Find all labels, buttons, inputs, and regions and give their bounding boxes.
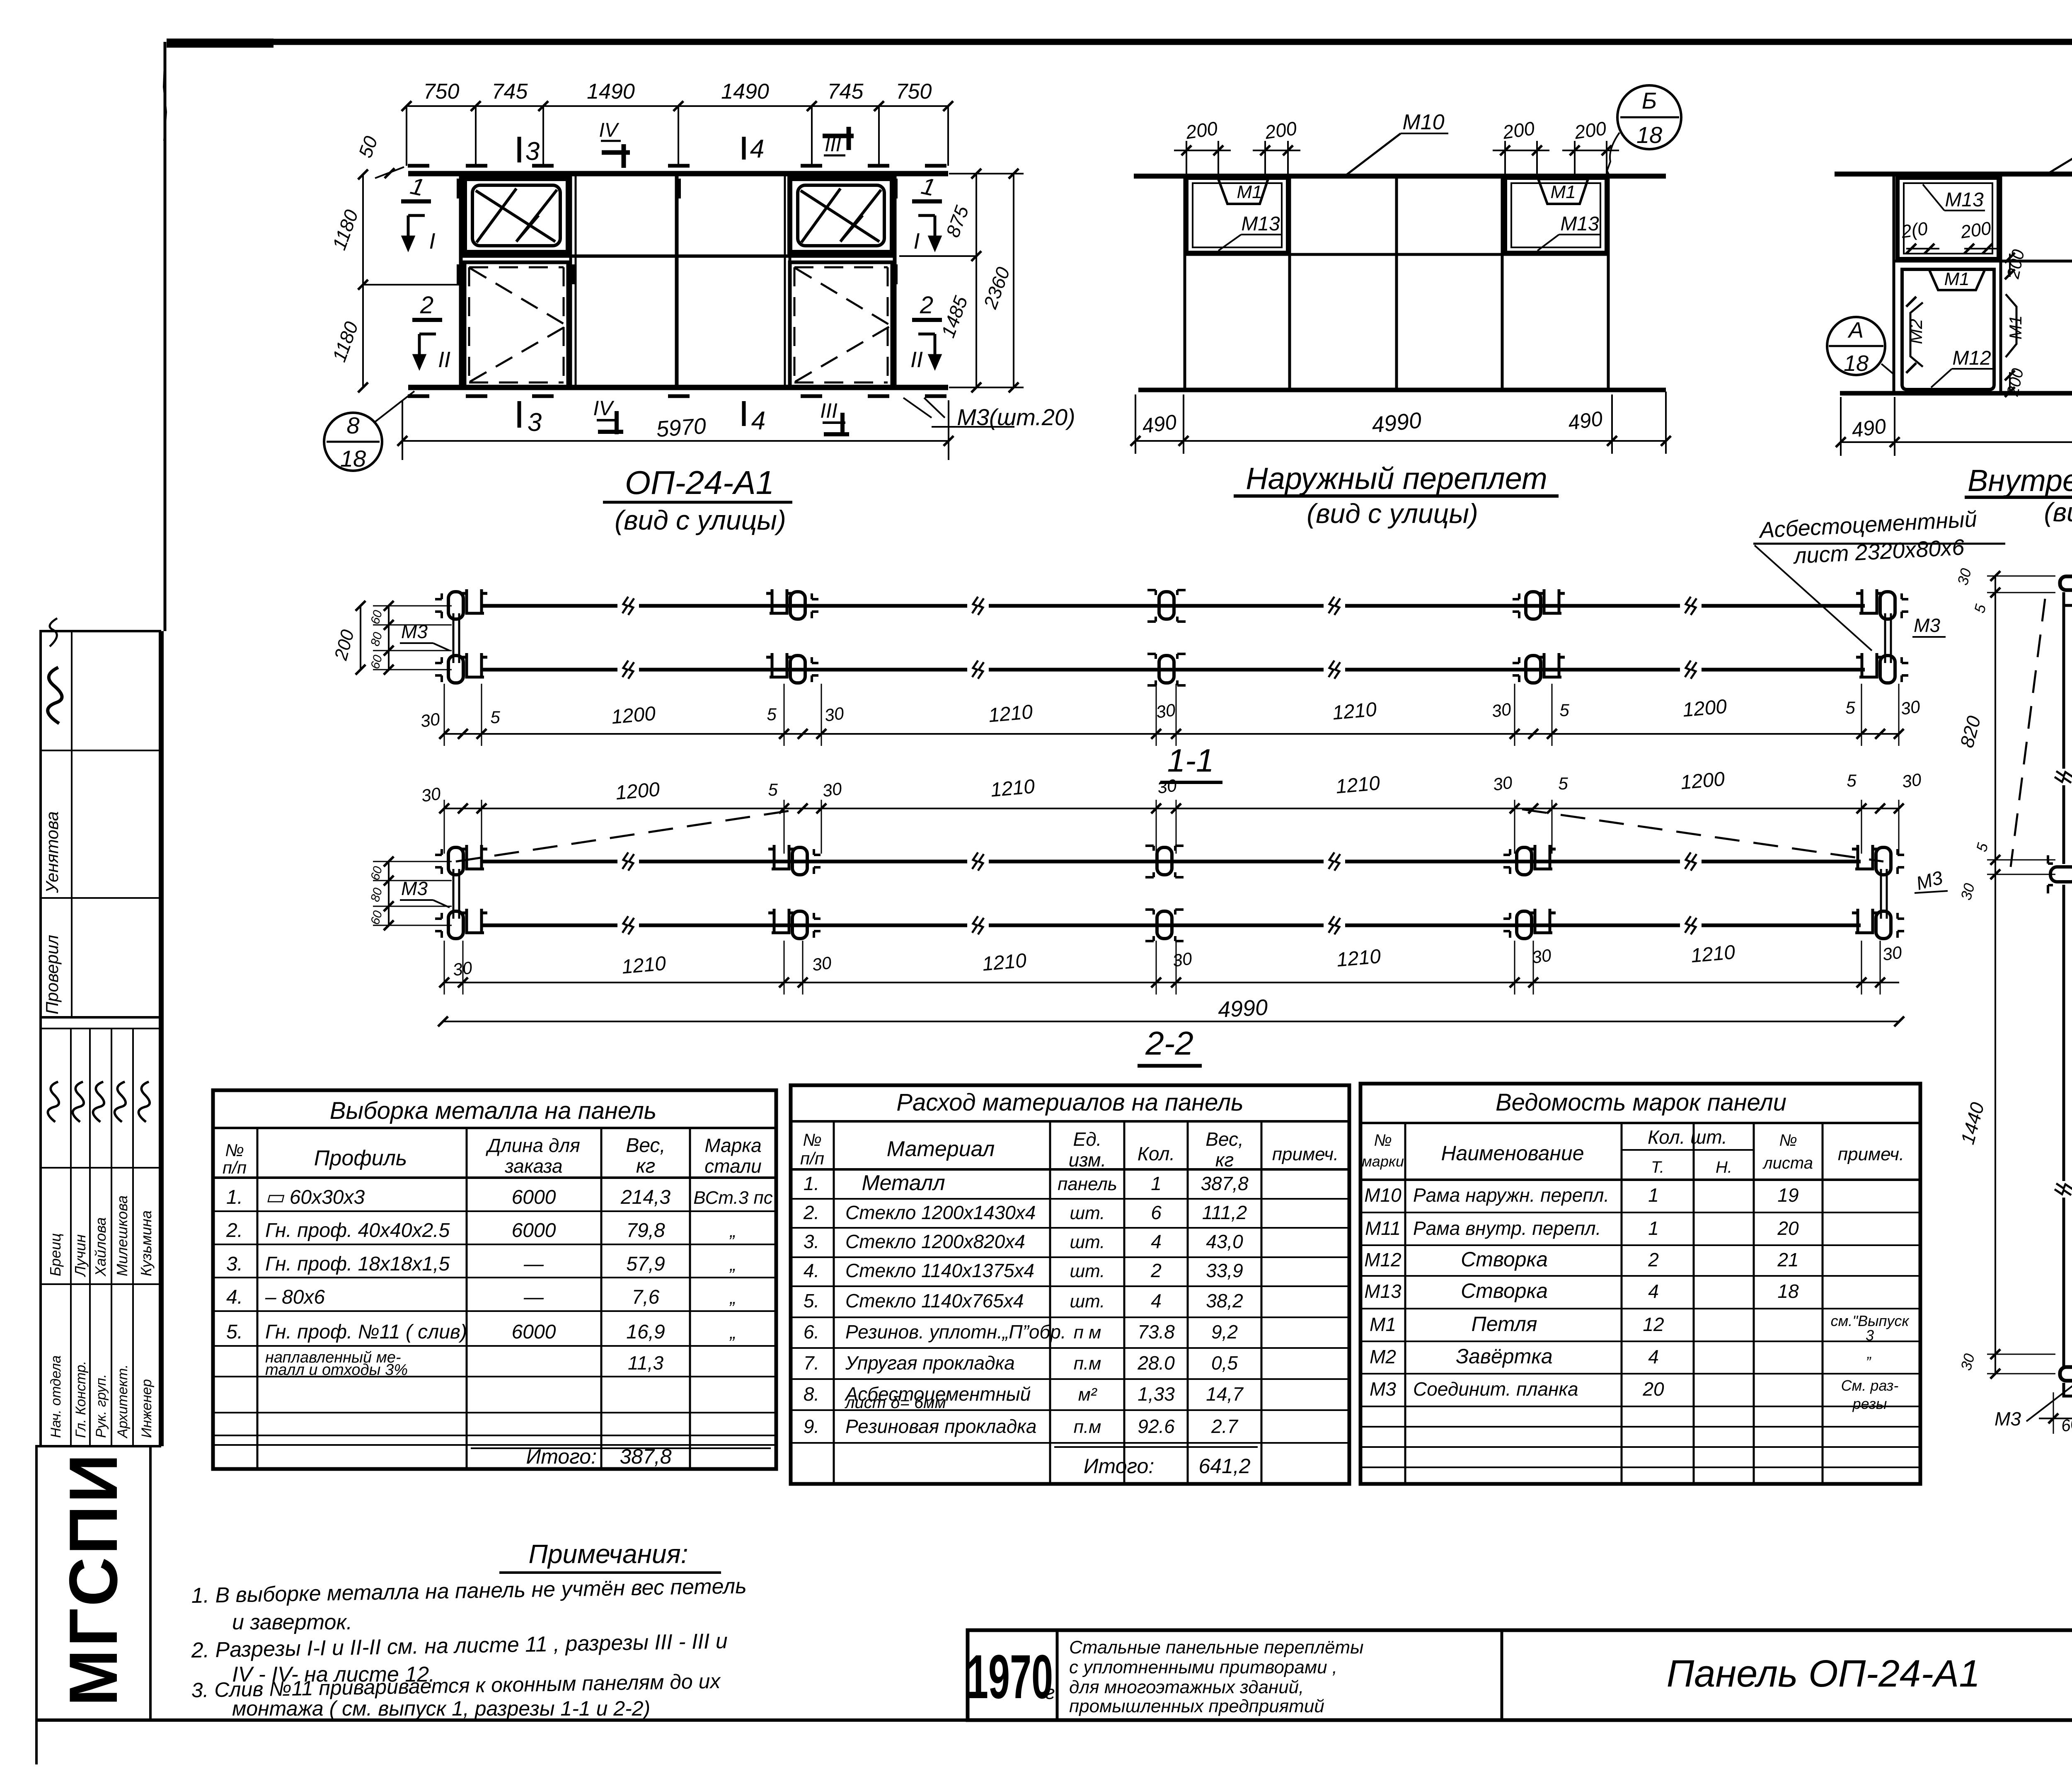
M1 hat left lower [1929, 269, 1985, 290]
svg-text:1-1: 1-1 [1167, 742, 1214, 779]
svg-text:—: — [523, 1286, 544, 1308]
svg-text:14,7: 14,7 [1206, 1383, 1244, 1405]
svg-text:Б: Б [1642, 87, 1657, 114]
vertical member left [2062, 593, 2065, 769]
paper edge artifact top-left [164, 54, 166, 141]
svg-text:Вес,: Вес, [1205, 1128, 1244, 1150]
inner sash left edge [1893, 174, 1895, 393]
svg-text:490: 490 [1140, 410, 1178, 438]
svg-text:30: 30 [1156, 775, 1178, 797]
svg-text:№: № [803, 1130, 822, 1149]
svg-text:М13: М13 [1560, 213, 1599, 235]
svg-text:30: 30 [1531, 945, 1553, 967]
inner sash bottom rail [1840, 391, 2072, 396]
svg-text:примеч.: примеч. [1272, 1144, 1339, 1164]
panel left edge [459, 174, 463, 387]
svg-text:Рук. груп.: Рук. груп. [93, 1374, 109, 1438]
svg-text:шт.: шт. [1070, 1203, 1105, 1223]
svg-text:30: 30 [1155, 700, 1177, 722]
svg-text:30: 30 [811, 953, 833, 975]
svg-text:490: 490 [1850, 414, 1888, 442]
section mark 2-II right [912, 318, 942, 322]
svg-text:п/п: п/п [223, 1158, 247, 1177]
svg-text:7,6: 7,6 [632, 1286, 660, 1308]
svg-text:М11: М11 [1365, 1217, 1401, 1239]
sheet frame border top [167, 39, 2072, 45]
svg-text:Марка: Марка [704, 1135, 761, 1156]
svg-text:1210: 1210 [1336, 945, 1382, 971]
svg-text:промышленных предприятий: промышленных предприятий [1069, 1696, 1324, 1716]
node mark 3 bottom [518, 401, 521, 428]
svg-text:Бреиц: Бреиц [47, 1233, 64, 1276]
svg-text:Уенятова: Уенятова [42, 811, 62, 893]
svg-text:Упругая прокладка: Упругая прокладка [845, 1352, 1015, 1374]
node mark 4 top [742, 137, 746, 160]
window left (M13) [1186, 178, 1288, 253]
M3 connector dashes along rails [408, 164, 429, 168]
section 1-1 left dims 200 60 80 60 [360, 606, 361, 670]
panel mullion center [675, 174, 679, 387]
svg-text:1210: 1210 [981, 949, 1027, 975]
svg-text:5: 5 [1845, 698, 1855, 717]
svg-text:2-2: 2-2 [1145, 1025, 1193, 1062]
panel bottom rail [408, 385, 948, 390]
svg-text:Кол.: Кол. [1138, 1143, 1175, 1164]
panel mullion 1 [569, 174, 572, 387]
svg-text:2(0: 2(0 [1900, 218, 1929, 242]
svg-text:5: 5 [767, 704, 777, 724]
right dim 875/1485 [975, 174, 977, 387]
section 2-2 bottom rail [481, 924, 617, 927]
svg-text:п м: п м [1074, 1322, 1101, 1343]
svg-text:„: „ [1866, 1345, 1872, 1362]
svg-text:2.: 2. [226, 1220, 243, 1241]
svg-text:изм.: изм. [1069, 1149, 1106, 1171]
svg-text:200: 200 [1501, 117, 1536, 143]
svg-text:1210: 1210 [1690, 941, 1736, 967]
panel top rail [408, 171, 948, 177]
svg-text:1210: 1210 [988, 701, 1034, 726]
svg-text:Створка: Створка [1461, 1279, 1548, 1302]
svg-text:30: 30 [1492, 772, 1514, 794]
svg-text:Проверил: Проверил [42, 935, 62, 1014]
svg-text:214,3: 214,3 [620, 1186, 670, 1208]
svg-text:3: 3 [525, 137, 540, 166]
svg-text:4: 4 [750, 135, 764, 163]
section 1-1 right M3 [1884, 613, 1886, 663]
svg-text:М1: М1 [1550, 182, 1576, 202]
svg-text:ВСт.3 пс: ВСт.3 пс [693, 1188, 772, 1208]
svg-text:Рама внутр. перепл.: Рама внутр. перепл. [1413, 1217, 1601, 1239]
svg-text:6.: 6. [804, 1321, 819, 1343]
section 2-2 left dims 60 80 60 [388, 862, 390, 925]
section 1-1 dim line bottom [443, 733, 1899, 735]
svg-text:марки: марки [1362, 1153, 1404, 1170]
svg-text:—: — [523, 1253, 544, 1275]
svg-text:Створка: Створка [1461, 1248, 1548, 1271]
node circle A/18 [1827, 317, 1885, 375]
svg-text:30: 30 [1901, 770, 1923, 791]
svg-text:1: 1 [1648, 1217, 1659, 1239]
svg-text:„: „ [729, 1254, 736, 1275]
svg-text:4.: 4. [804, 1260, 819, 1281]
svg-text:Петля: Петля [1472, 1312, 1537, 1336]
panel right edge [893, 174, 897, 387]
svg-text:п/п: п/п [800, 1149, 824, 1168]
svg-text:Кузьмина: Кузьмина [138, 1210, 155, 1276]
right dim 2360 [1013, 174, 1014, 387]
section 1-1 left connector plate M3 [453, 613, 455, 663]
paper edge artifact bottom-left [35, 1720, 38, 1764]
window top-right with X glazing [790, 179, 892, 252]
svg-text:– 80х6: – 80х6 [265, 1286, 325, 1308]
section 2-2 swing dashed lines [456, 809, 799, 862]
svg-text:5.: 5. [226, 1321, 243, 1343]
svg-text:М3: М3 [1995, 1408, 2021, 1430]
svg-text:М3: М3 [401, 621, 428, 642]
upper signature table (Проверил) [41, 631, 160, 1017]
svg-text:2: 2 [420, 292, 433, 319]
svg-text:30: 30 [823, 703, 845, 725]
svg-text:1200: 1200 [615, 778, 661, 804]
inner sash mid horizontal [1894, 260, 2072, 263]
scan smudge top-left [167, 39, 274, 48]
svg-text:▭ 60х30х3: ▭ 60х30х3 [265, 1186, 365, 1208]
svg-text:3.: 3. [804, 1231, 819, 1252]
svg-text:Металл: Металл [862, 1171, 945, 1195]
svg-text:2: 2 [1648, 1249, 1659, 1270]
svg-text:Материал: Материал [887, 1137, 995, 1161]
svg-text:745: 745 [828, 80, 864, 104]
title block [968, 1630, 2072, 1720]
svg-text:18: 18 [1636, 122, 1662, 148]
svg-text:1200: 1200 [610, 702, 656, 728]
3-3 left dim column [1995, 576, 1996, 874]
svg-text:монтажа ( см. выпуск 1, раз: монтажа ( см. выпуск 1, разрезы 1-1 и 2-… [232, 1697, 650, 1720]
svg-text:387,8: 387,8 [1201, 1173, 1249, 1194]
left dim 1180/1180 [362, 174, 364, 387]
section 2-2 clusters bottom rail [435, 909, 487, 939]
M3 plate dashes in elevation (vertical) [457, 179, 460, 198]
svg-text:9.: 9. [804, 1416, 819, 1437]
svg-text:Гл. Констр.: Гл. Констр. [73, 1361, 89, 1438]
svg-text:1210: 1210 [990, 775, 1036, 801]
svg-text:Длина для: Длина для [485, 1135, 580, 1156]
section 2-2 clusters top rail [435, 845, 487, 875]
svg-text:М1: М1 [1944, 269, 1969, 289]
svg-text:18: 18 [1844, 351, 1869, 376]
svg-text:5: 5 [490, 707, 500, 727]
svg-text:5: 5 [1559, 700, 1569, 720]
top cluster [2060, 576, 2072, 605]
svg-text:745: 745 [492, 80, 528, 104]
section mark 1-I left [401, 199, 431, 203]
svg-text:16,9: 16,9 [626, 1321, 665, 1343]
svg-text:М1: М1 [1237, 182, 1262, 202]
svg-text:М13: М13 [1364, 1280, 1402, 1302]
svg-text:79,8: 79,8 [626, 1220, 665, 1241]
3-3 bottom dims 60 80 60 [2053, 1392, 2054, 1434]
svg-text:1,33: 1,33 [1138, 1383, 1175, 1405]
svg-text:30: 30 [1172, 949, 1193, 970]
node circle B/18 middle [1617, 85, 1681, 149]
section 1-1 clusters top rail [435, 589, 487, 619]
svg-text:лист δ= 6мм: лист δ= 6мм [845, 1394, 946, 1412]
svg-text:4: 4 [1648, 1346, 1659, 1367]
svg-text:Т.: Т. [1651, 1158, 1664, 1176]
svg-text:1.: 1. [804, 1173, 819, 1194]
svg-text:2: 2 [1150, 1260, 1162, 1281]
svg-text:20: 20 [1642, 1378, 1664, 1400]
section mark 2-II left [412, 318, 442, 322]
svg-text:Н.: Н. [1716, 1158, 1732, 1176]
svg-text:Ведомость марок панели: Ведомость марок панели [1496, 1089, 1786, 1116]
svg-text:19: 19 [1777, 1184, 1798, 1206]
M1 trapezoid hat left [1218, 179, 1268, 204]
svg-text:Гн. проф. 18х18х1,5: Гн. проф. 18х18х1,5 [265, 1253, 450, 1275]
M1 side trapezoids + rotated 200 dims [2006, 294, 2016, 357]
svg-text:М2: М2 [1906, 319, 1926, 344]
svg-text:„: „ [729, 1221, 736, 1241]
svg-text:Профиль: Профиль [314, 1146, 407, 1170]
sheet frame border bottom [36, 1718, 2072, 1722]
outer sash top rail [1134, 174, 1666, 179]
svg-text:1200: 1200 [1680, 768, 1726, 794]
svg-text:М2: М2 [1370, 1346, 1396, 1367]
svg-text:Инженер: Инженер [139, 1379, 155, 1438]
svg-text:4: 4 [1648, 1280, 1659, 1302]
svg-text:750: 750 [896, 80, 932, 104]
svg-text:4.: 4. [226, 1286, 243, 1308]
bottom dims 490/4990/490 inner [1841, 441, 2072, 443]
dashed swing lines [2011, 599, 2045, 867]
svg-text:примеч.: примеч. [1838, 1144, 1904, 1164]
sash bottom-left (dashed swing) [465, 262, 568, 387]
svg-text:М10: М10 [1364, 1184, 1402, 1206]
svg-text:кг: кг [636, 1155, 655, 1177]
svg-text:I: I [913, 229, 920, 254]
svg-text:5970: 5970 [656, 414, 707, 442]
svg-text:4990: 4990 [1370, 408, 1423, 438]
svg-text:5: 5 [1558, 774, 1568, 793]
table Vyborka metalla na panel [213, 1090, 776, 1469]
svg-text:1490: 1490 [721, 80, 769, 104]
svg-text:(вид с улицы): (вид с улицы) [615, 505, 786, 535]
node mark 4 bottom [742, 401, 746, 426]
svg-text:талл и отходы 3%: талл и отходы 3% [265, 1361, 408, 1379]
svg-text:А: А [1847, 318, 1864, 343]
svg-text:60: 60 [2060, 1415, 2072, 1435]
sash bottom-right (dashed swing) [790, 262, 892, 387]
svg-text:Наименование: Наименование [1441, 1142, 1584, 1165]
svg-text:ОП-24-А1: ОП-24-А1 [625, 464, 774, 501]
svg-text:МГСПИ: МГСПИ [55, 1451, 131, 1706]
svg-text:Хайлова: Хайлова [92, 1217, 109, 1277]
svg-text:1200: 1200 [1682, 695, 1728, 721]
section 2-2 top dim line [443, 808, 1899, 809]
svg-text:30: 30 [1881, 942, 1903, 964]
svg-text:М10: М10 [1402, 110, 1444, 134]
svg-text:Резиновая прокладка: Резиновая прокладка [845, 1416, 1036, 1437]
svg-text:Выборка металла на панель: Выборка металла на панель [330, 1097, 657, 1124]
svg-text:6000: 6000 [512, 1220, 556, 1241]
svg-text:Гн. проф. №11 ( слив): Гн. проф. №11 ( слив) [265, 1321, 467, 1343]
svg-text:200: 200 [1959, 218, 1992, 242]
svg-text:28.0: 28.0 [1137, 1352, 1175, 1374]
svg-text:6000: 6000 [512, 1321, 556, 1343]
section 2-2 dim line bottom [443, 982, 1899, 983]
svg-text:кг: кг [1215, 1149, 1234, 1171]
svg-text:№: № [225, 1140, 244, 1160]
svg-text:№: № [1374, 1131, 1392, 1149]
inner sash mullions [1999, 174, 2002, 393]
M2 bracket left [1910, 302, 1923, 367]
svg-text:8: 8 [346, 412, 359, 438]
bottom dims 490/4990/490 [1135, 440, 1666, 442]
elevation OP-24-A1 top dimension line 750-745-1490-1490-745-750 [407, 105, 948, 107]
bottom overall dim 5970 [402, 440, 949, 442]
svg-text:1970: 1970 [967, 1643, 1053, 1712]
svg-text:1210: 1210 [1331, 698, 1377, 724]
outer sash mid horizontal [1185, 253, 1608, 256]
svg-text:5: 5 [1847, 771, 1857, 790]
section 1-1 top rail [481, 604, 617, 608]
section 2-2 top rail [481, 860, 617, 864]
svg-text:30: 30 [1900, 697, 1922, 719]
svg-text:641,2: 641,2 [1198, 1454, 1250, 1478]
inner sash top rail [1835, 172, 2072, 177]
svg-text:для многоэтажных зданий,: для многоэтажных зданий, [1069, 1677, 1304, 1697]
svg-text:с уплотненными притворами ,: с уплотненными притворами , [1069, 1657, 1337, 1677]
break marks [2055, 771, 2072, 783]
sheet frame border left [164, 42, 167, 631]
svg-text:Стекло 1200х1430х4: Стекло 1200х1430х4 [845, 1202, 1036, 1223]
dim 200 pairs above [1174, 150, 1231, 151]
M1 trapezoid hat right [1538, 179, 1588, 204]
svg-text:II: II [438, 347, 450, 372]
svg-text:Ед.: Ед. [1073, 1128, 1102, 1150]
svg-text:Расход материалов на панель: Расход материалов на панель [896, 1089, 1243, 1116]
svg-text:Завёртка: Завёртка [1456, 1345, 1552, 1368]
svg-text:4: 4 [1151, 1290, 1162, 1312]
svg-text:18: 18 [1777, 1280, 1799, 1302]
svg-text:М1: М1 [2006, 315, 2025, 339]
svg-text:М12: М12 [1952, 347, 1991, 369]
middle clusters [2048, 855, 2072, 893]
svg-text:0,5: 0,5 [1211, 1352, 1238, 1374]
svg-text:М1: М1 [1370, 1314, 1396, 1335]
svg-text:3: 3 [528, 408, 542, 437]
svg-text:1: 1 [1151, 1173, 1162, 1194]
svg-text:См. раз-: См. раз- [1841, 1377, 1899, 1394]
svg-text:(вид с улицы): (вид с улицы) [1307, 498, 1478, 529]
svg-text:резы: резы [1852, 1395, 1887, 1412]
section 2-2 right M3 [1880, 869, 1882, 919]
svg-text:Наружный переплет: Наружный переплет [1246, 461, 1547, 496]
svg-text:33,9: 33,9 [1206, 1260, 1243, 1281]
svg-text:М3: М3 [1370, 1378, 1396, 1400]
svg-text:30: 30 [420, 784, 442, 806]
sash left lower (M12) [1902, 269, 1994, 390]
svg-text:Примечания:: Примечания: [529, 1539, 688, 1569]
table Rasxod materialov na panel [791, 1085, 1349, 1484]
svg-text:панель: панель [1058, 1174, 1117, 1194]
svg-text:5: 5 [768, 780, 778, 799]
svg-text:4: 4 [1151, 1231, 1162, 1252]
svg-text:57,9: 57,9 [626, 1253, 665, 1275]
svg-text:1210: 1210 [1335, 772, 1381, 798]
svg-text:490: 490 [1566, 407, 1604, 435]
svg-text:1210: 1210 [621, 952, 667, 978]
svg-text:12: 12 [1643, 1314, 1664, 1335]
section 1-1 clusters bottom rail [435, 653, 487, 683]
svg-text:Милешкова: Милешкова [114, 1195, 131, 1276]
svg-text:30: 30 [452, 958, 474, 980]
svg-text:№: № [1779, 1131, 1797, 1149]
svg-text:М13: М13 [1945, 189, 1984, 211]
svg-text:М3: М3 [1914, 615, 1940, 636]
svg-text:Нач. отдела: Нач. отдела [48, 1355, 64, 1438]
svg-text:шт.: шт. [1070, 1291, 1105, 1312]
svg-text:18: 18 [340, 445, 366, 472]
section 2-2 left connector M3 [453, 869, 455, 919]
svg-text:4990: 4990 [1218, 995, 1268, 1022]
svg-text:III: III [820, 399, 838, 422]
section 1-1 bottom rail [481, 668, 617, 672]
svg-text:8.: 8. [804, 1383, 819, 1405]
svg-text:и заверток.: и заверток. [232, 1610, 352, 1634]
outer sash mullions [1288, 176, 1291, 390]
window top-left with X glazing [465, 179, 568, 252]
MGSPI institute box [36, 1446, 150, 1720]
svg-text:„: „ [729, 1287, 736, 1308]
node circle 8/18 [324, 413, 382, 471]
svg-text:1.: 1. [226, 1186, 243, 1208]
svg-text:„: „ [729, 1322, 736, 1343]
svg-text:2.7: 2.7 [1211, 1416, 1238, 1437]
svg-text:Стекло 1140х765х4: Стекло 1140х765х4 [845, 1290, 1024, 1312]
svg-text:43,0: 43,0 [1206, 1231, 1243, 1252]
window right (M13) [1505, 178, 1607, 253]
svg-text:(вид из помещения): (вид из помещения) [2044, 497, 2072, 527]
signature squiggle [41, 666, 68, 723]
svg-text:листа: листа [1762, 1154, 1813, 1172]
svg-text:2: 2 [920, 292, 933, 319]
svg-text:38,2: 38,2 [1206, 1290, 1243, 1312]
svg-text:200: 200 [1573, 117, 1608, 143]
svg-text:Рама наружн. перепл.: Рама наружн. перепл. [1413, 1184, 1609, 1206]
svg-text:73.8: 73.8 [1138, 1321, 1175, 1343]
panel mid horizontal [461, 254, 895, 258]
svg-text:п.м: п.м [1074, 1417, 1101, 1437]
panel mullion 2 [784, 174, 786, 387]
svg-text:6: 6 [1151, 1202, 1162, 1223]
svg-text:м²: м² [1078, 1384, 1097, 1405]
svg-text:п.м: п.м [1074, 1353, 1101, 1374]
svg-text:11,3: 11,3 [628, 1352, 664, 1374]
table Vedomost marok paneli [1360, 1084, 1920, 1484]
svg-text:Соединит. планка: Соединит. планка [1413, 1378, 1578, 1400]
svg-text:Вес,: Вес, [626, 1135, 666, 1157]
svg-text:шт.: шт. [1070, 1232, 1105, 1252]
svg-text:9,2: 9,2 [1211, 1321, 1238, 1343]
svg-text:20: 20 [1777, 1217, 1799, 1239]
svg-text:IV: IV [599, 119, 619, 141]
svg-text:М12: М12 [1364, 1249, 1401, 1270]
bottom cluster [2060, 1367, 2072, 1396]
svg-text:IV: IV [593, 397, 615, 420]
svg-text:Стекло 1200х820х4: Стекло 1200х820х4 [845, 1231, 1025, 1252]
